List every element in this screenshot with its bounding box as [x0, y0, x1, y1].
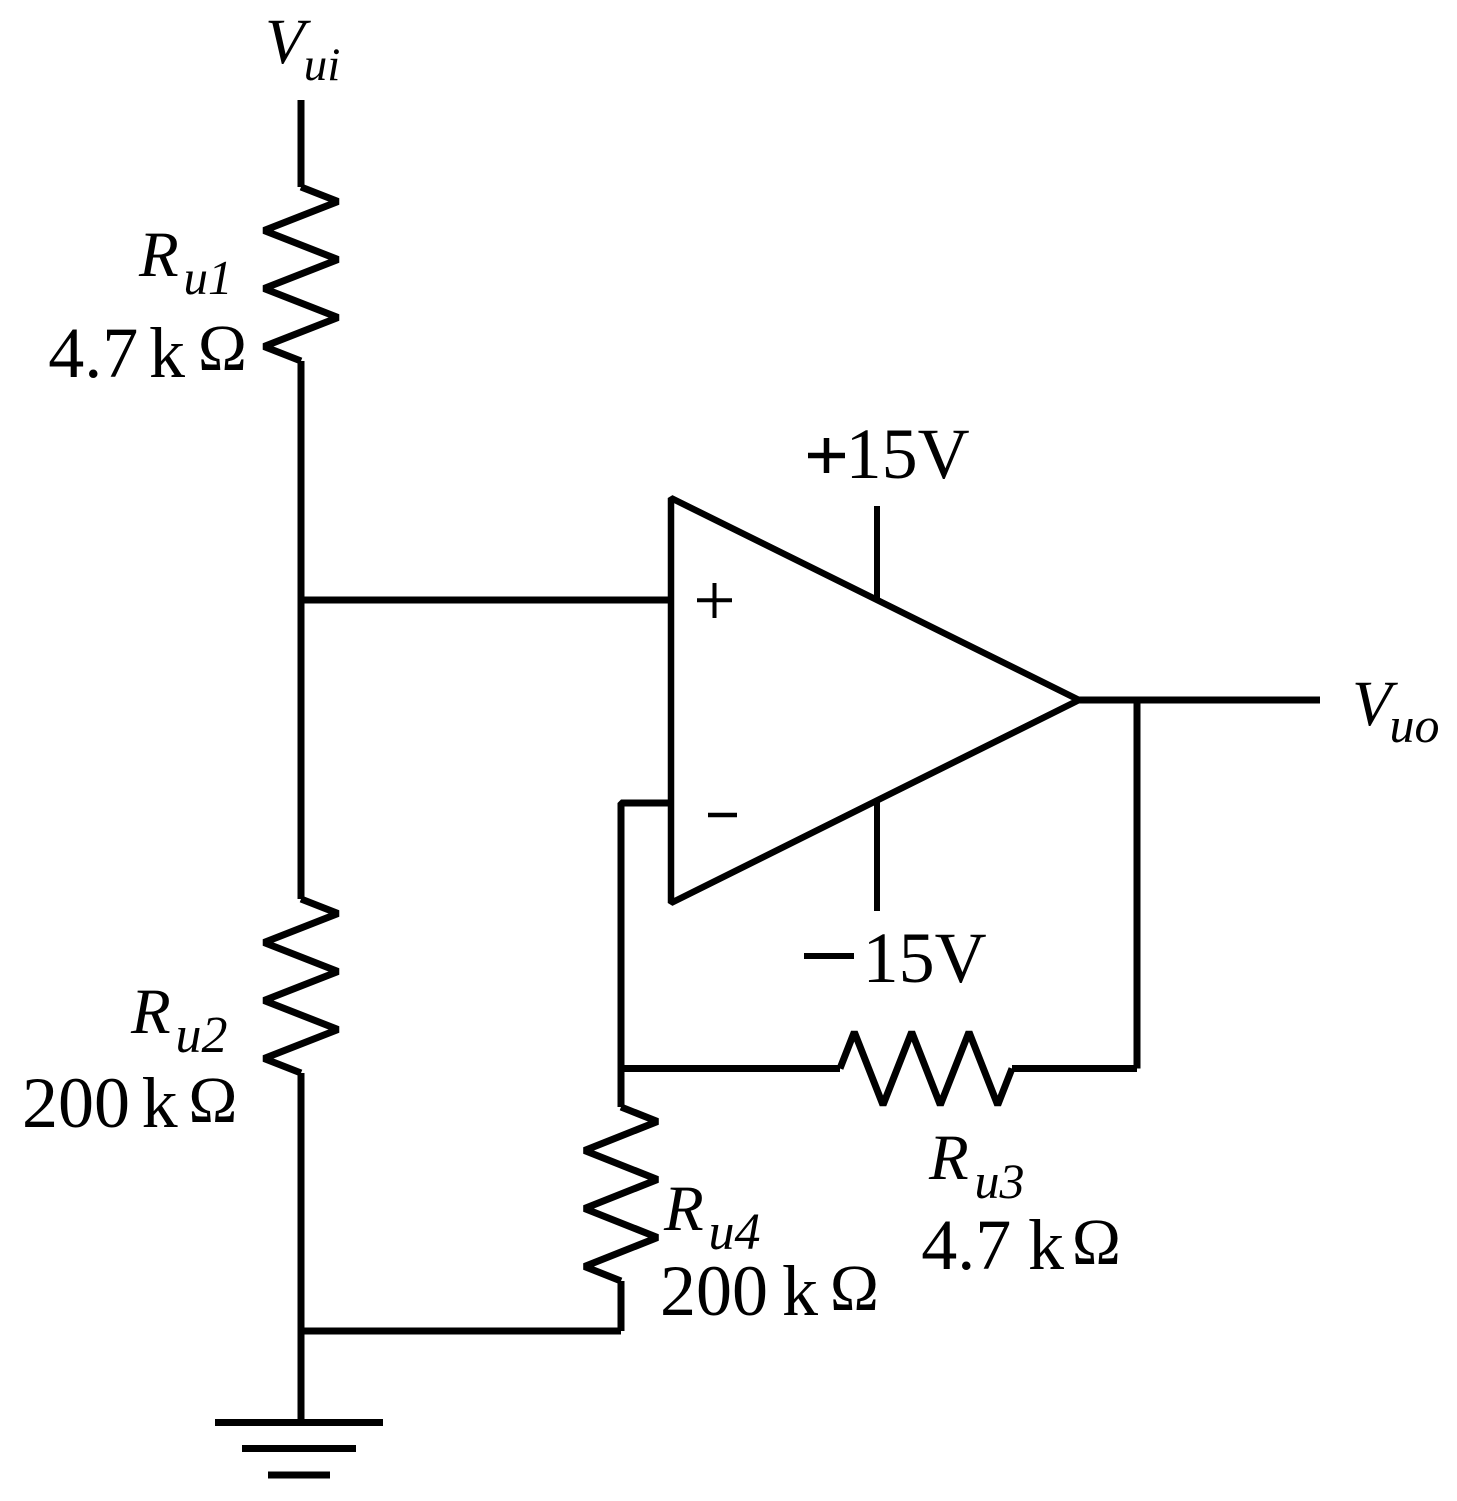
wire feedback left — [621, 1065, 840, 1072]
resistor R_u3 — [840, 1032, 1012, 1105]
wire output to feedback — [1134, 700, 1141, 1069]
wire feedback right — [1012, 1065, 1137, 1072]
svg-text:u3: u3 — [975, 1153, 1025, 1209]
svg-text:4.7: 4.7 — [48, 313, 138, 393]
wire minus input — [621, 803, 671, 1107]
svg-text:R: R — [130, 976, 171, 1048]
svg-text:200: 200 — [22, 1063, 130, 1143]
svg-text:R: R — [663, 1173, 704, 1245]
svg-text:Ω: Ω — [1072, 1206, 1121, 1279]
label +15V plus sign — [808, 438, 845, 473]
wire bottom node to R_u4 — [301, 1328, 621, 1335]
svg-text:15V: 15V — [863, 918, 987, 998]
op-amp U1 — [671, 498, 1079, 903]
+15V supply pin — [874, 506, 880, 600]
svg-text:k: k — [1028, 1205, 1064, 1285]
svg-text:uo: uo — [1390, 697, 1440, 753]
resistor R_u2 — [264, 899, 338, 1073]
svg-text:k: k — [149, 313, 185, 393]
op-amp minus input symbol — [708, 813, 737, 818]
label -15V minus sign — [804, 953, 854, 959]
resistor R_u4 — [585, 1107, 658, 1281]
wire node to + input — [301, 597, 671, 604]
svg-text:Ω: Ω — [198, 312, 247, 385]
svg-text:k: k — [142, 1063, 178, 1143]
svg-text:Ω: Ω — [830, 1252, 879, 1325]
wire R_u2 to ground — [298, 1073, 305, 1423]
svg-text:200: 200 — [660, 1251, 768, 1331]
svg-text:Ω: Ω — [188, 1064, 237, 1137]
svg-text:4.7: 4.7 — [921, 1205, 1011, 1285]
wire R_u1 to R_u2 — [298, 361, 305, 899]
svg-text:R: R — [138, 219, 179, 291]
svg-text:u1: u1 — [184, 250, 233, 305]
svg-text:15V: 15V — [846, 414, 970, 494]
wire output — [1079, 697, 1320, 704]
wire R_u4 to bottom node — [618, 1281, 625, 1331]
op-amp plus input symbol — [697, 583, 732, 618]
ground — [215, 1423, 383, 1476]
wire V_ui stem — [298, 100, 305, 187]
svg-text:u2: u2 — [176, 1007, 228, 1064]
-15V supply pin — [874, 800, 880, 911]
resistor R_u1 — [264, 187, 338, 361]
svg-text:ui: ui — [304, 39, 341, 91]
svg-text:R: R — [928, 1122, 969, 1194]
svg-text:k: k — [782, 1251, 818, 1331]
